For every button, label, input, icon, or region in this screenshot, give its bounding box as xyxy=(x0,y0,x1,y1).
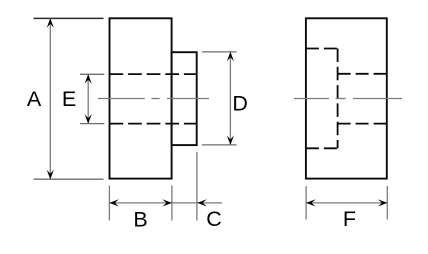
svg-text:B: B xyxy=(133,207,147,231)
side view centerline xyxy=(294,98,402,100)
front view centerline xyxy=(98,98,209,100)
dimension A line xyxy=(49,18,51,179)
svg-text:E: E xyxy=(62,87,76,111)
svg-text:C: C xyxy=(206,207,222,231)
dimension B extension line left xyxy=(108,186,110,221)
dimension C extension line right xyxy=(196,152,198,221)
dimension A arrow down xyxy=(47,170,54,180)
dimension F line xyxy=(306,202,387,204)
svg-text:F: F xyxy=(343,207,356,231)
side view hidden line upper right xyxy=(338,73,387,75)
side view hidden line lower left xyxy=(306,147,338,149)
front view boss outline xyxy=(172,52,197,145)
side view hidden line upper left xyxy=(306,48,338,50)
dimension D line xyxy=(229,52,231,145)
dimension E extension line top xyxy=(80,73,104,75)
svg-text:D: D xyxy=(232,92,248,116)
side view hidden line lower right xyxy=(338,123,387,125)
dimension D extension line top xyxy=(202,51,237,53)
dimension C connector line xyxy=(172,202,197,204)
dimension C tail line xyxy=(197,202,222,204)
dimension E arrow down xyxy=(85,114,92,124)
dimension A extension line bottom xyxy=(34,178,104,180)
dimension F extension line right xyxy=(386,186,388,220)
dimension B arrow left xyxy=(109,199,119,206)
dimension F arrow left xyxy=(306,199,316,206)
dimension E extension line bottom xyxy=(80,123,104,125)
dimension D arrow down xyxy=(227,135,234,145)
dimension A arrow up xyxy=(47,18,54,28)
side view outline xyxy=(306,18,387,178)
dimension C arrow pointing left at boss edge xyxy=(197,199,207,206)
dimension B / C shared extension line xyxy=(171,186,173,221)
dimension D extension line bottom xyxy=(202,144,237,146)
dimension B line xyxy=(109,202,171,204)
dimension B arrow right xyxy=(162,199,172,206)
dimension E line xyxy=(87,74,89,123)
front view hidden bore line top xyxy=(110,73,197,75)
dimension E arrow up xyxy=(85,74,92,84)
side view hidden line vertical step xyxy=(337,49,339,149)
front view hidden bore line bottom xyxy=(110,123,197,125)
dimension F arrow right xyxy=(378,199,388,206)
dimension A extension line top xyxy=(34,17,104,19)
dimension D arrow up xyxy=(227,52,234,62)
dimension F extension line left xyxy=(305,186,307,220)
front view main body outline xyxy=(110,18,172,178)
svg-text:A: A xyxy=(27,87,42,111)
